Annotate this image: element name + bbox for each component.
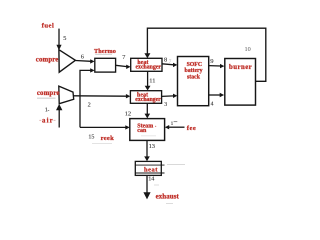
exhaust wire (146, 176, 148, 194)
svg-text:Thermo: Thermo (94, 48, 116, 55)
wire 3 (162, 95, 174, 98)
heat box (boiler) (135, 161, 161, 175)
svg-text:exchanger: exchanger (135, 97, 161, 103)
air inlet wire 1 (58, 109, 60, 128)
compressor C2 (59, 86, 74, 104)
svg-text:7: 7 (169, 59, 172, 65)
wire 2 (74, 95, 127, 97)
wire 13 (146, 141, 148, 158)
svg-text:exhaust: exhaust (156, 194, 180, 201)
wire 6 (75, 60, 91, 63)
svg-text:burner: burner (229, 64, 252, 71)
wire 4 (209, 94, 221, 96)
svg-text:SOFC: SOFC (187, 62, 202, 68)
svg-text:13: 13 (149, 143, 155, 150)
svg-text:reek: reek (101, 135, 115, 142)
steam can (130, 119, 165, 141)
svg-text:1: 1 (45, 106, 48, 113)
heat exchanger HX1 (131, 58, 162, 71)
svg-text:14: 14 (148, 175, 154, 182)
wire 12 (146, 103, 148, 115)
svg-text:heat: heat (144, 166, 158, 173)
svg-text:fee: fee (187, 125, 197, 132)
exhaust-loop wire 10 (147, 28, 265, 81)
wire 5 (fuel inlet) (58, 29, 60, 46)
svg-text:4: 4 (211, 101, 214, 107)
svg-text:11: 11 (149, 78, 155, 85)
svg-text:15: 15 (88, 134, 94, 140)
wire 8 (162, 64, 174, 65)
svg-text:8: 8 (164, 57, 167, 64)
heat exchanger HX2 (130, 91, 161, 104)
wire 7 (116, 65, 127, 66)
wire 9 (209, 65, 221, 67)
svg-text:compre: compre (36, 56, 59, 63)
thermo box U1 (95, 58, 116, 72)
svg-text:3: 3 (164, 102, 167, 108)
svg-text:6: 6 (81, 54, 84, 61)
SOFC battery stack (178, 57, 209, 106)
svg-text:can: can (137, 128, 147, 134)
compressor C1 (59, 50, 76, 72)
wire to thermo lower input (80, 70, 91, 127)
svg-text:air: air (42, 117, 54, 124)
svg-text:5: 5 (63, 35, 66, 42)
burner (225, 59, 256, 106)
svg-text:battery: battery (184, 68, 202, 74)
scan artifacts (154, 184, 159, 186)
svg-text:7: 7 (122, 54, 125, 61)
svg-text:fuel: fuel (42, 23, 55, 30)
svg-text:2: 2 (88, 102, 91, 109)
steam supply wire 15 (80, 126, 126, 128)
feed wire (169, 126, 185, 128)
svg-text:compre: compre (37, 90, 60, 97)
svg-text:12: 12 (125, 111, 131, 118)
svg-text:stack: stack (187, 75, 201, 81)
svg-text:10: 10 (245, 46, 251, 53)
wire 11 (147, 71, 149, 86)
svg-text:exchanger: exchanger (135, 65, 161, 71)
svg-text:1: 1 (171, 121, 174, 127)
